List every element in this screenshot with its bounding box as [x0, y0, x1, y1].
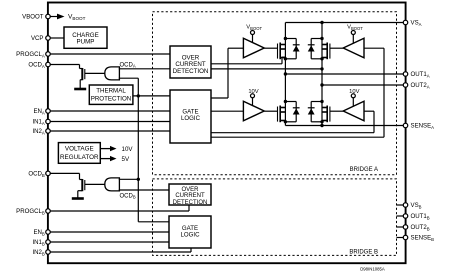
svg-text:OVER: OVER: [181, 187, 199, 193]
svg-text:VBOOT: VBOOT: [246, 25, 262, 31]
svg-text:VBOOT: VBOOT: [347, 25, 363, 31]
svg-text:PROTECTION: PROTECTION: [91, 96, 132, 103]
svg-text:PROGCLB: PROGCLB: [16, 208, 45, 215]
svg-text:D98IN1085A: D98IN1085A: [360, 266, 385, 271]
svg-text:PROGCLA: PROGCLA: [16, 51, 45, 58]
svg-text:SENSEB: SENSEB: [411, 235, 435, 242]
svg-text:CURRENT: CURRENT: [175, 193, 205, 199]
svg-text:THERMAL: THERMAL: [96, 88, 126, 95]
svg-text:BRIDGE B: BRIDGE B: [349, 249, 378, 255]
svg-text:DETECTION: DETECTION: [173, 200, 208, 206]
svg-text:OCDB: OCDB: [120, 193, 136, 199]
svg-text:OCDA: OCDA: [120, 62, 136, 68]
svg-text:BRIDGE A: BRIDGE A: [350, 167, 378, 173]
svg-text:REGULATOR: REGULATOR: [60, 154, 99, 161]
svg-text:VBOOT: VBOOT: [22, 14, 44, 21]
svg-text:DETECTION: DETECTION: [173, 68, 209, 75]
svg-text:10V: 10V: [122, 146, 134, 153]
svg-text:PUMP: PUMP: [77, 39, 95, 46]
svg-text:VCP: VCP: [31, 35, 44, 42]
svg-text:5V: 5V: [122, 156, 130, 163]
svg-text:VOLTAGE: VOLTAGE: [65, 146, 94, 153]
svg-text:LOGIC: LOGIC: [181, 115, 201, 122]
svg-text:LOGIC: LOGIC: [181, 232, 201, 239]
svg-text:SENSEA: SENSEA: [411, 123, 435, 130]
